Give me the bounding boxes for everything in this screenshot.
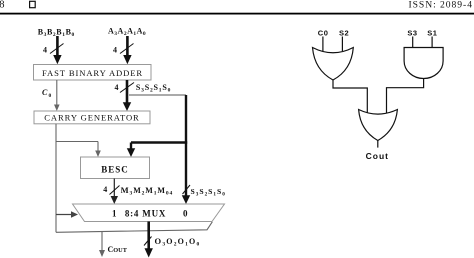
wire AND1 output — [387, 79, 424, 113]
wire into MUX input 1 — [56, 211, 78, 217]
wire S3 into AND1 — [412, 37, 414, 48]
svg-text:O3O2O1O0: O3O2O1O0 — [155, 236, 201, 248]
svg-text:C0: C0 — [318, 28, 329, 37]
svg-text:0: 0 — [183, 209, 188, 219]
svg-text:C: C — [42, 88, 48, 97]
svg-text:S2: S2 — [339, 28, 349, 37]
svg-text:A3A2A1A0: A3A2A1A0 — [108, 27, 146, 38]
svg-text:1: 1 — [112, 209, 117, 219]
svg-text:S3S2S1S0: S3S2S1S0 — [136, 83, 171, 94]
wire A input bus arrow — [123, 36, 131, 64]
svg-text:8: 8 — [0, 0, 4, 11]
wire O output bus — [145, 222, 153, 258]
wire OR1 output — [333, 80, 367, 113]
bus width slash B — [50, 44, 64, 54]
svg-text:S3: S3 — [407, 28, 417, 37]
gate OR1 (C0+S2) — [313, 48, 354, 81]
bus width slash M — [110, 186, 120, 195]
wire S1 into AND1 — [431, 37, 433, 48]
block BESC — [81, 157, 150, 179]
svg-text:COUT: COUT — [108, 245, 128, 254]
bus width slash O — [144, 237, 152, 246]
wire B input bus arrow — [53, 36, 61, 64]
bus width slash S — [120, 83, 134, 93]
svg-text:M3M2M1M04: M3M2M1M04 — [121, 185, 174, 197]
svg-text:Cout: Cout — [366, 151, 389, 161]
svg-text:4: 4 — [115, 83, 119, 92]
tofu box glyph — [30, 1, 36, 7]
wire OR2 output — [377, 141, 379, 148]
wire S2 into OR1 — [341, 37, 343, 52]
svg-text:FAST BINARY ADDER: FAST BINARY ADDER — [42, 68, 143, 78]
gate OR2 (Cout) — [359, 110, 398, 141]
wire S bus branch to right rail — [129, 94, 186, 96]
wire carry generator output left rail — [56, 124, 212, 233]
wire Cout output — [99, 232, 105, 257]
wire into BESC (thin arrow) — [95, 142, 101, 158]
gate AND1 (S3.S1) — [404, 48, 443, 79]
header rule — [0, 13, 474, 15]
block 8:4 MUX trapezoid — [73, 204, 225, 222]
wire C0 to carry generator — [54, 80, 60, 111]
svg-text:4: 4 — [103, 185, 107, 194]
svg-text:ISSN: 2089-4: ISSN: 2089-4 — [409, 0, 473, 11]
block FAST BINARY ADDER — [34, 65, 152, 81]
bus width slash S lower — [183, 185, 191, 194]
wire BESC to MUX — [111, 179, 118, 205]
svg-text:4: 4 — [113, 46, 117, 55]
wire C0 into OR1 — [322, 37, 324, 52]
svg-text:0: 0 — [49, 93, 52, 99]
svg-text:CARRY GENERATOR: CARRY GENERATOR — [44, 113, 139, 123]
svg-text:S1: S1 — [427, 28, 437, 37]
wire S bus right rail down to MUX — [182, 95, 190, 204]
svg-text:S3S2S1S0: S3S2S1S0 — [191, 187, 226, 197]
svg-text:4: 4 — [43, 46, 47, 55]
wire S bus adder to carry generator — [123, 80, 131, 111]
svg-text:BESC: BESC — [101, 165, 129, 175]
block CARRY GENERATOR — [34, 111, 150, 124]
bus width slash A — [120, 44, 134, 54]
wire S bus branch to BESC — [127, 143, 187, 158]
svg-text:8:4 MUX: 8:4 MUX — [125, 209, 166, 219]
